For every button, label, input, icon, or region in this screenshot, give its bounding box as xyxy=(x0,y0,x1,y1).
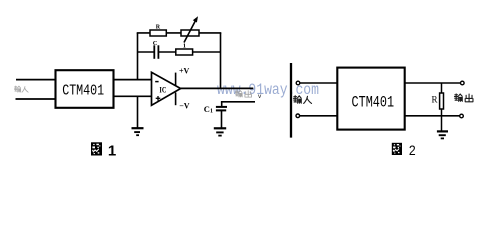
wire input top xyxy=(300,82,338,84)
ground (fig1 left) xyxy=(132,128,144,135)
wire feedback top branch xyxy=(137,32,222,34)
terminal input top xyxy=(296,81,300,85)
wire box to non-inverting input xyxy=(113,95,152,97)
potentiometer RP xyxy=(181,30,199,36)
capacitor C (feedback) xyxy=(153,45,155,59)
ground (under C1) xyxy=(214,128,226,135)
wire box to inverting input xyxy=(113,79,152,81)
terminal output top xyxy=(461,81,465,85)
svg-text:R: R xyxy=(156,24,161,30)
label 输出 (gray, fig1 output) xyxy=(235,90,251,97)
wire input top xyxy=(16,79,56,81)
wire feedback second branch xyxy=(138,51,154,53)
svg-text:R: R xyxy=(432,95,438,105)
wire input bottom xyxy=(16,98,56,100)
wire op-amp output xyxy=(181,87,254,89)
svg-text:IC: IC xyxy=(159,86,166,95)
plus sign xyxy=(156,97,161,99)
svg-text:C: C xyxy=(153,40,158,47)
svg-text:1: 1 xyxy=(183,43,186,50)
svg-text:CTM401: CTM401 xyxy=(62,84,104,100)
resistor R (fig2 load) xyxy=(441,83,443,93)
minus sign xyxy=(155,81,158,83)
label 图 2 xyxy=(392,142,416,158)
wire input bottom xyxy=(300,115,338,117)
op-amp U1 xyxy=(152,72,181,105)
wire feedback left vertical xyxy=(137,33,139,80)
wire output bottom xyxy=(405,115,460,117)
wire output top xyxy=(405,82,461,84)
wire ground stub (fig2) xyxy=(441,116,443,131)
block CTM401 (fig2) xyxy=(337,68,404,130)
svg-text:−V: −V xyxy=(179,101,190,110)
terminal input bottom xyxy=(296,114,300,118)
terminal output bottom xyxy=(460,114,464,118)
input bus bar xyxy=(290,63,292,138)
wire C1 top lead xyxy=(221,102,223,106)
label 输入 (gray, fig2) xyxy=(293,96,311,104)
ground (fig2) xyxy=(437,131,448,138)
svg-text:2: 2 xyxy=(409,142,416,158)
pin +V xyxy=(175,73,177,86)
label 图 1 xyxy=(91,142,116,159)
resistor 1 (feedback second branch) xyxy=(176,49,193,55)
label 输入 (gray, fig1) xyxy=(14,86,28,92)
wire C1 branch horizontal xyxy=(221,101,255,103)
capacitor C1 xyxy=(216,106,227,108)
pin -V xyxy=(175,93,177,106)
label 输出 (gray, fig2) xyxy=(454,94,472,102)
wire C1 bottom lead xyxy=(221,110,223,128)
svg-text:CTM401: CTM401 xyxy=(352,94,395,112)
wire feedback right vertical xyxy=(220,33,222,89)
wire ground stub below non-inverting input xyxy=(137,96,139,128)
resistor R (feedback top) xyxy=(150,30,166,36)
svg-text:1: 1 xyxy=(108,142,116,159)
svg-text:+V: +V xyxy=(179,67,190,76)
block CTM401 (fig1) xyxy=(56,70,114,108)
